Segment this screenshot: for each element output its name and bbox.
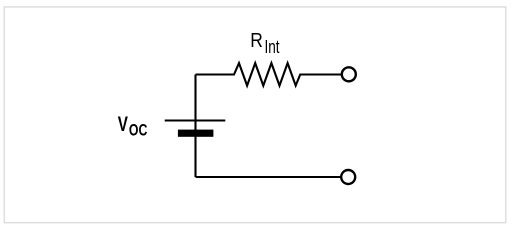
svg-text:R: R [250, 30, 263, 53]
svg-text:Int: Int [265, 37, 280, 57]
svg-text:OC: OC [129, 122, 148, 140]
svg-text:V: V [118, 111, 129, 135]
